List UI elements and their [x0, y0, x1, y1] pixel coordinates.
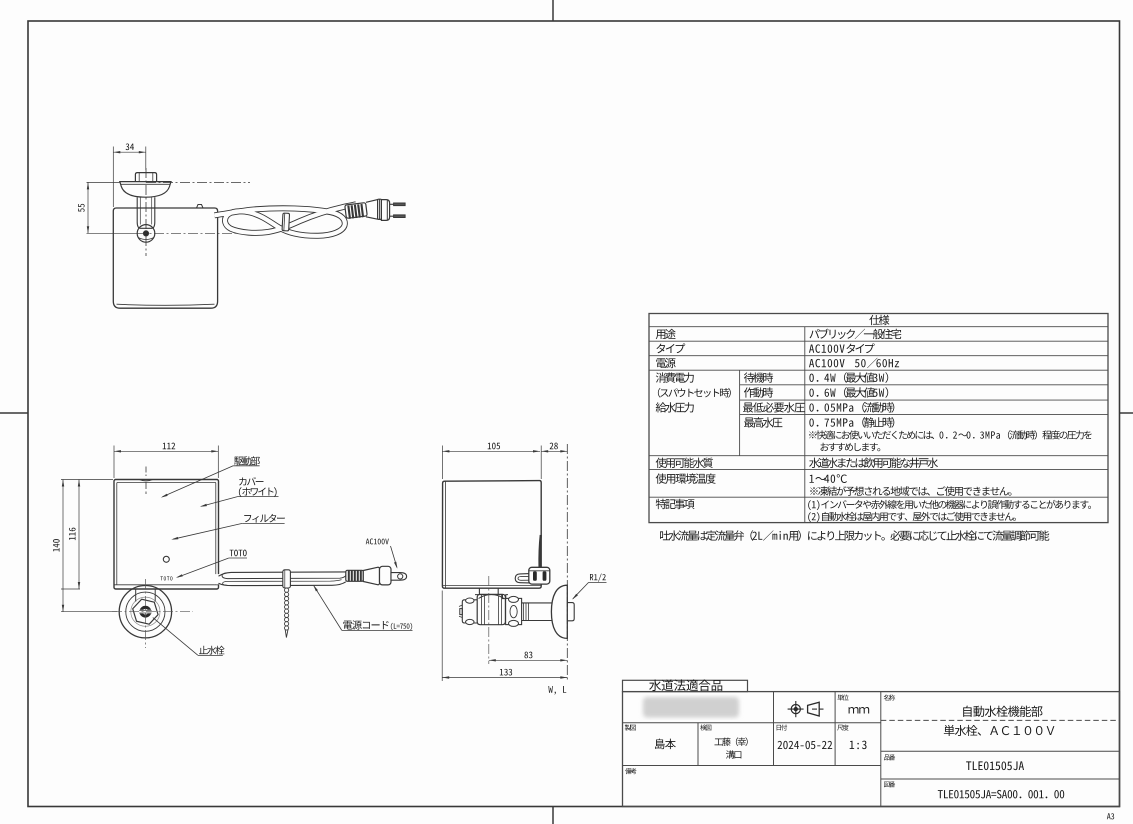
row 電源: [656, 358, 675, 368]
dim 140: line+arrows: [62, 480, 64, 612]
label TOTO: [230, 550, 247, 557]
row 待機時: [744, 372, 773, 382]
dim 112: value: [163, 443, 175, 450]
front view: prong hole: [398, 574, 403, 579]
label AC100V: [366, 538, 389, 544]
dim 105: extension lines: [441, 446, 443, 480]
top view: cable tie: [282, 213, 290, 231]
spec table: full row lines: [649, 326, 1108, 328]
top view: sensor chin line: [138, 238, 154, 240]
dim 105: value: [488, 443, 500, 450]
top view: spout stem: [137, 197, 155, 228]
side view: socket slot right: [543, 572, 546, 580]
front view: stop valve mid circle: [126, 592, 165, 631]
top view: stem inner lines: [139, 197, 141, 224]
row 作動時: [744, 387, 773, 397]
front view: cord bundle top line: [219, 572, 346, 576]
label 電源コード leader: [314, 586, 342, 631]
dim 116: value: [69, 528, 76, 540]
title block: divider left/name column: [880, 692, 882, 807]
spec table: main column divider: [804, 327, 806, 523]
title block: 日付 label: [777, 724, 787, 730]
title block: 検図 label: [700, 724, 711, 730]
dim 140: extension lines: [61, 479, 113, 481]
title block: 1:3: [850, 741, 867, 750]
side view: valve axis centerline: [488, 576, 490, 664]
side view: wall flange dome: [551, 585, 567, 638]
top view: cord anchor notch: [197, 205, 204, 209]
front view: centerline tick above cover: [145, 467, 147, 478]
row タイプ: [656, 343, 685, 353]
front view: cord bundle bottom line: [219, 582, 346, 586]
spec table: sub column divider: [739, 370, 741, 456]
row 用途: [656, 329, 676, 339]
top view: spout cap: [135, 173, 156, 182]
row 給水圧力 note: [809, 430, 1092, 439]
dim 83: value: [524, 652, 532, 659]
side view: cover bottom seam: [443, 585, 541, 587]
front view: cord bundle line3: [227, 580, 342, 582]
front view: plug prong side: [391, 573, 407, 581]
label 止水栓: [199, 646, 224, 655]
top view: plug prong lower: [390, 215, 394, 217]
row 使用環境温度: [656, 473, 716, 483]
title block: 製図 label: [625, 724, 636, 730]
row 最高水圧: [744, 417, 782, 427]
dim 28: line+arrows: [541, 450, 567, 452]
side view: barrel top ellipse: [479, 595, 505, 599]
title block: valve symbol: [791, 705, 800, 714]
row 最低必要水圧: [743, 402, 805, 412]
dim 34: dimension line: [113, 151, 146, 153]
label TOTO leader: [178, 558, 229, 577]
top view: unit body outline: [113, 208, 217, 308]
front view: stop valve inner circle: [131, 597, 160, 626]
side view: cover left seam: [445, 481, 447, 588]
title block: 図番 label: [884, 781, 895, 787]
side view: valve supply pipe: [478, 588, 480, 594]
front view: valve screw slot ring: [141, 607, 150, 616]
dim 55: arrows: [87, 182, 89, 189]
row 使用環境温度 note: [810, 486, 1011, 496]
spec table: outer frame: [649, 314, 1108, 523]
dim 55: dimension line: [87, 182, 89, 233]
row 給水圧力: [656, 402, 694, 412]
title block: dashed divider: [881, 719, 1120, 721]
top view: spout cap inner ticks: [138, 173, 140, 182]
side view: plug socket on box: [529, 567, 550, 584]
row 特記事項: [656, 499, 695, 509]
dim 83: line+arrows: [489, 659, 568, 661]
side view: left cap bumps: [466, 598, 474, 603]
front view: stop valve outer circle: [119, 586, 171, 638]
title block: TLE01505JA=SA00.001.00: [938, 790, 1064, 799]
top view: plug prong upper: [390, 203, 394, 205]
dim 105: line+arrows: [442, 450, 540, 452]
title block: line above 品番: [881, 750, 1120, 752]
sheet center mark left: [0, 412, 28, 414]
top view: sensor window circle: [137, 225, 155, 243]
dim 28: value: [550, 443, 558, 450]
top view: plug body flare: [366, 200, 378, 220]
title block: mm: [849, 707, 870, 713]
front view: tie strap hanging: [285, 588, 289, 592]
sheet center mark top: [552, 0, 554, 21]
spec table: sub row lines: [740, 384, 1108, 386]
label フィルター leader: [242, 522, 284, 524]
sheet center mark right: [1120, 412, 1133, 414]
top view: plug cap: [381, 200, 389, 221]
front view: box edge gap at cord exit: [215, 574, 220, 584]
label AC100V leader: [391, 546, 398, 568]
label 駆動部: [234, 456, 260, 465]
label カバー leader: [238, 496, 279, 498]
title block: 水道法適合品: [649, 679, 722, 691]
side view: valve barrel: [477, 594, 505, 624]
top view: plug face ring: [378, 199, 382, 219]
front view: valve crosshair vertical: [144, 579, 146, 648]
side view: wall stub: [568, 603, 575, 621]
dim 133: extension line: [441, 591, 443, 682]
top view: horizontal centerline: [146, 182, 250, 184]
title block: 尺度 label: [837, 724, 848, 730]
side view: coupling bumps: [509, 596, 519, 602]
side view: coupling ring: [506, 598, 522, 624]
title block: divider 製図/検図: [697, 723, 699, 766]
top view: ferrite bead sleeve: [345, 203, 368, 220]
dim 116: line+arrows: [78, 480, 80, 590]
side view: outlet pipe: [522, 602, 552, 604]
title block: divider stamp/symbol: [773, 692, 775, 766]
side view: barrel seams: [481, 595, 483, 625]
row 特記事項 line2: [808, 512, 1016, 522]
title block: 単位 label: [837, 694, 848, 700]
front view: sensor LED hole: [163, 556, 169, 562]
top view: vertical centerline: [145, 168, 147, 256]
title block: outer frame: [623, 692, 1120, 807]
title block: stamp blur: [643, 697, 739, 718]
sheet center mark bottom: [552, 807, 554, 824]
label フィルター: [244, 514, 285, 523]
label R1/2 leader: [573, 582, 589, 598]
top view: body bottom rim line: [117, 304, 215, 305]
title block: row line 1 left: [623, 722, 881, 724]
front view: valve screw slot: [139, 610, 152, 614]
side view: left cap: [462, 600, 477, 623]
side view: cover outline: [442, 481, 541, 589]
side view: left cap tip: [460, 609, 463, 615]
side view: valve neck: [475, 595, 508, 599]
title block: 工藤（幸）: [714, 737, 747, 746]
side view: socket slot left: [534, 572, 537, 580]
dim 55: extension lines: [87, 181, 121, 183]
top view: sensor eye: [143, 231, 148, 236]
front view: ferrite sleeve: [346, 570, 364, 581]
dim 55: value: [78, 204, 85, 212]
front view: cable tie on bundle: [283, 570, 291, 588]
label W,L: [548, 686, 566, 695]
top view: flange top inner line: [121, 183, 170, 185]
side view: cord inside: [540, 535, 541, 568]
title block: line above 図番: [881, 778, 1120, 780]
spec table: header 仕様: [869, 315, 889, 325]
front view: cover inner seam: [117, 482, 216, 584]
title block: row line 2 left: [623, 765, 881, 767]
front view: cover bottom band: [114, 584, 218, 586]
label 駆動部 leader: [233, 465, 259, 467]
side view: plug holder hook: [515, 574, 529, 583]
label R1/2: [590, 574, 606, 582]
dim 34: extension lines: [112, 147, 114, 208]
front view: cord bundle line2: [228, 575, 347, 578]
dim 34: arrows: [113, 151, 120, 153]
title block: 名称 label: [884, 695, 895, 701]
front view: stop valve hex nut: [130, 598, 160, 626]
label 電源コード(L=750): [343, 620, 388, 629]
front view: valve crosshair horizontal: [112, 611, 193, 613]
dim 133: line+arrows: [442, 677, 567, 679]
title block: water law tab box: [623, 680, 748, 691]
dim 112: extension lines: [113, 446, 115, 479]
front view: cover outline: [114, 480, 219, 590]
title block: divider symbol/unit: [834, 692, 836, 766]
front view: valve inlet lines: [135, 589, 137, 601]
dim 112: line+arrows: [114, 450, 218, 452]
title block: 備考 label: [625, 768, 636, 774]
title block: 自動水栓機能部: [963, 706, 1042, 717]
dim 133: value: [500, 669, 512, 676]
title block: 単水栓、ＡＣ１００Ｖ: [944, 725, 1055, 736]
dim 34: value: [126, 143, 134, 150]
label 止水栓 leader: [153, 618, 198, 656]
row 特記事項 line1: [808, 500, 1091, 510]
title block: 島本: [655, 739, 676, 750]
side view: pipe threads: [524, 603, 529, 620]
front view: plug body: [363, 567, 379, 584]
row 使用可能水質: [656, 458, 713, 468]
sheet size A3: [1107, 813, 1114, 819]
label カバー(ホワイト): [239, 477, 263, 485]
top view: spout flange dome: [120, 182, 171, 198]
top view: power cord loop: [215, 204, 357, 236]
title block: TLE01505JA: [966, 761, 1024, 770]
note below table: [660, 530, 1049, 541]
side view: wall centerline: [566, 444, 568, 682]
front view: TOTO logo on cover: [160, 576, 172, 580]
title block: 品番 label: [884, 754, 895, 760]
title block: 2024-05-22: [778, 741, 833, 749]
row 消費電力: [656, 372, 694, 382]
title block: 溝口: [726, 750, 741, 758]
dim 140: value: [53, 539, 60, 551]
